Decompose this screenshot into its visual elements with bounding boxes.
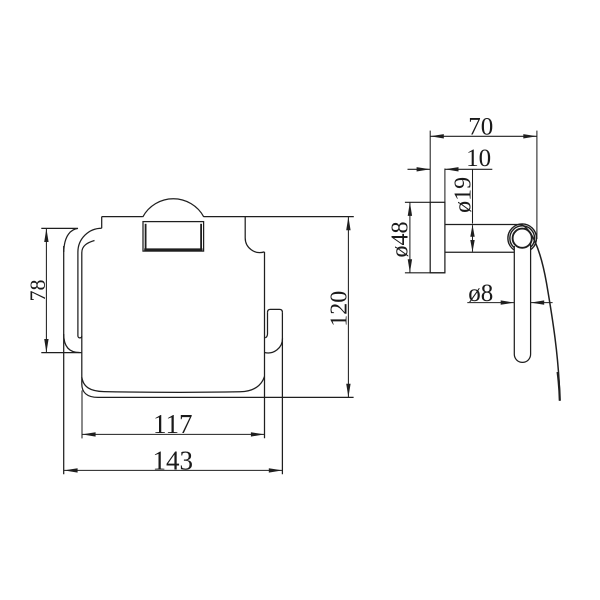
svg-text:117: 117 [153,409,193,439]
svg-text:70: 70 [468,114,493,141]
svg-text:10: 10 [466,145,491,172]
svg-text:ø19: ø19 [451,177,477,213]
svg-text:78: 78 [25,280,50,302]
svg-text:ø8: ø8 [468,280,493,307]
svg-text:120: 120 [327,291,353,327]
svg-text:143: 143 [153,446,194,476]
svg-text:ø48: ø48 [388,222,414,258]
